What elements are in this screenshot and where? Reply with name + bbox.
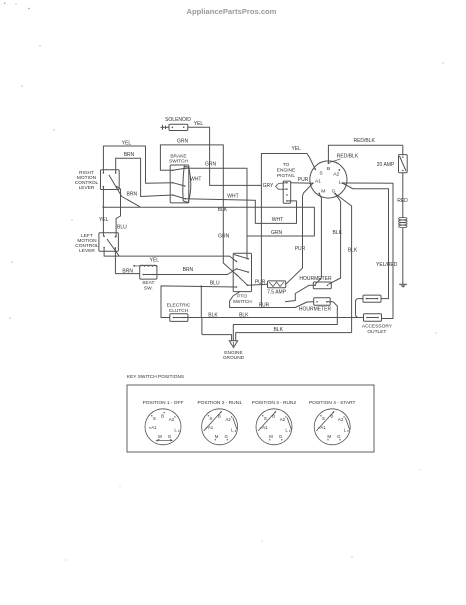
svg-text:M: M [321, 188, 325, 194]
svg-text:A2: A2 [333, 171, 339, 177]
svg-text:GRN: GRN [271, 230, 283, 236]
svg-text:GRN: GRN [205, 162, 217, 168]
svg-text:S: S [153, 416, 156, 421]
svg-text:20 AMP: 20 AMP [377, 162, 395, 168]
svg-text:KEY SWITCH POSITIONS: KEY SWITCH POSITIONS [127, 374, 184, 380]
svg-text:A2: A2 [169, 417, 175, 422]
svg-text:WHT: WHT [190, 177, 201, 183]
svg-text:ACCESSORY: ACCESSORY [362, 323, 393, 329]
svg-text:A2: A2 [338, 417, 344, 422]
svg-text:G: G [279, 434, 283, 439]
svg-text:AppliancePartsPros.com: AppliancePartsPros.com [187, 7, 277, 16]
svg-text:LEVER: LEVER [79, 248, 95, 254]
svg-text:A2: A2 [280, 417, 286, 422]
svg-text:BLK: BLK [208, 313, 218, 319]
svg-text:POSITION 1 - OFF: POSITION 1 - OFF [143, 400, 184, 406]
svg-text:ENGINE: ENGINE [224, 350, 242, 356]
svg-text:B: B [327, 166, 330, 172]
svg-text:SOLENOID: SOLENOID [165, 117, 191, 123]
svg-text:HOURMETER: HOURMETER [299, 306, 332, 312]
svg-text:S: S [209, 416, 212, 421]
svg-text:POSITION 4 - START: POSITION 4 - START [309, 400, 356, 406]
svg-text:LEVER: LEVER [79, 185, 95, 191]
svg-text:GRN: GRN [177, 139, 189, 145]
svg-text:S: S [264, 416, 267, 421]
svg-text:RED/BLK: RED/BLK [337, 154, 359, 160]
svg-text:SWITCH: SWITCH [169, 159, 188, 165]
svg-text:M: M [215, 434, 219, 439]
svg-text:B: B [161, 414, 164, 419]
svg-text:YEL: YEL [291, 146, 301, 152]
svg-text:HOURMETER: HOURMETER [299, 276, 332, 282]
svg-text:A1: A1 [315, 179, 321, 185]
svg-text:BLK: BLK [239, 313, 249, 319]
svg-text:CLUTCH: CLUTCH [169, 308, 189, 314]
svg-text:G: G [224, 434, 228, 439]
svg-text:BRN: BRN [127, 192, 138, 198]
svg-text:ELECTRIC: ELECTRIC [167, 303, 191, 309]
svg-text:BLU: BLU [210, 280, 220, 286]
svg-text:WHT: WHT [227, 193, 238, 199]
svg-text:L: L [339, 180, 342, 186]
svg-text:YEL: YEL [122, 140, 132, 146]
svg-text:SW.: SW. [144, 285, 153, 291]
svg-text:WHT: WHT [272, 217, 283, 223]
svg-text:YEL: YEL [150, 258, 160, 264]
svg-text:TO: TO [283, 162, 290, 168]
svg-text:ENGINE: ENGINE [277, 168, 295, 174]
svg-text:YEL: YEL [194, 121, 204, 127]
svg-text:G: G [337, 434, 341, 439]
svg-text:SEAT: SEAT [142, 280, 154, 286]
svg-text:RED: RED [397, 198, 408, 204]
svg-text:POSITION 2 - RUN1: POSITION 2 - RUN1 [197, 400, 242, 406]
svg-text:YEL: YEL [99, 217, 109, 223]
svg-text:A2: A2 [225, 417, 231, 422]
svg-text:GRN: GRN [218, 233, 230, 239]
svg-text:S: S [322, 416, 325, 421]
svg-text:PUR: PUR [298, 177, 309, 183]
svg-text:PIGTAIL: PIGTAIL [277, 173, 295, 179]
svg-text:SWITCH: SWITCH [233, 299, 252, 305]
svg-text:M: M [327, 434, 331, 439]
svg-text:BLK: BLK [332, 230, 342, 236]
svg-text:PTO: PTO [237, 294, 247, 300]
svg-text:POSITION 3 - RUN2: POSITION 3 - RUN2 [252, 400, 297, 406]
svg-text:M: M [158, 434, 162, 439]
svg-text:BLK: BLK [218, 207, 228, 213]
svg-text:7.5 AMP: 7.5 AMP [267, 290, 287, 296]
svg-text:RED/BLK: RED/BLK [353, 138, 375, 144]
svg-text:BRAKE: BRAKE [170, 154, 186, 160]
svg-text:BLU: BLU [117, 225, 127, 231]
svg-text:BRN: BRN [124, 152, 135, 158]
svg-text:M: M [269, 434, 273, 439]
svg-text:YEL/RED: YEL/RED [376, 262, 398, 268]
svg-text:G: G [168, 434, 172, 439]
svg-text:A1: A1 [151, 425, 157, 430]
svg-text:BRN: BRN [183, 267, 194, 273]
svg-text:BLK: BLK [348, 248, 358, 254]
svg-text:PUR: PUR [295, 246, 306, 252]
svg-text:BLK: BLK [273, 327, 283, 333]
svg-text:GROUND: GROUND [223, 355, 245, 361]
svg-text:GRY: GRY [263, 183, 274, 189]
svg-text:OUTLET: OUTLET [367, 329, 386, 335]
